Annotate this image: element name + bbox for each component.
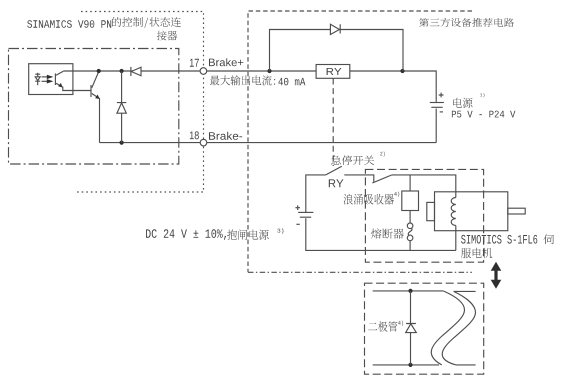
- diode V4 branch lower wire: [410, 333, 412, 365]
- pin 18 terminal circle: [200, 139, 207, 146]
- label 最大输出电流: (max output current): [210, 75, 275, 85]
- phototransistor emitter with arrowhead: [56, 83, 91, 90]
- SINAMICS V90 PN control/status connector box (dash-dot): [9, 49, 179, 165]
- cable break squiggle (outer S-curve): [431, 291, 464, 365]
- label pin number 18: [190, 131, 199, 139]
- motor area dashed box: [365, 169, 483, 262]
- wire: bottom box bottom rail: [373, 364, 439, 366]
- label RY (contact): [329, 179, 344, 187]
- label DC 24 V ± 10%,: [146, 229, 226, 240]
- label SIMOTICS S-1FL6: [461, 235, 537, 244]
- battery B2 negative plate (thick): [300, 216, 311, 218]
- wire: between RY contact and emergency stop switch: [344, 175, 374, 182]
- node: junction dot bottom of diode V4: [408, 363, 412, 367]
- optocoupler LED (vertical diode): [35, 73, 40, 85]
- battery B2 positive plate: [298, 211, 313, 213]
- label superscript 1): [480, 93, 485, 97]
- optocoupler light arrows: [42, 76, 48, 78]
- battery B1 minus sign: [440, 111, 443, 113]
- motor internal variant dashed box (bottom): [365, 283, 484, 374]
- battery B2 minus sign: [296, 223, 299, 225]
- label superscript 4) at surge absorber: [394, 192, 399, 197]
- label superscript 4) at diode: [398, 321, 403, 327]
- label RY (relay coil): [327, 68, 342, 75]
- connector boundary (dotted bracket around pins 17/18): [75, 12, 204, 193]
- wire: transistor emitter to pin 18 (Brake-): [100, 142, 201, 144]
- wire: bottom box top rail: [373, 290, 444, 292]
- power supply B1 positive plate: [430, 102, 444, 104]
- surge absorber box: [402, 191, 419, 211]
- wire: battery B1 negative to Brake- line: [435, 109, 437, 143]
- diode V2 (cathode bar left, points left): [131, 67, 141, 76]
- diode V4 (points up, cathode bar on top): [406, 324, 417, 333]
- diode V1 (points up, cathode bar on top): [117, 103, 126, 114]
- optocoupler U1 package box: [29, 64, 73, 95]
- label 的控制/状态连 (connector title CJK): [112, 17, 181, 28]
- wire: diode V1 branch upper: [121, 71, 123, 103]
- third-party device recommended circuit box (dashed, open right): [248, 11, 472, 272]
- wire: pin 18 to battery B1 bottom: [207, 142, 436, 144]
- transistor Q1 base bar: [90, 85, 92, 97]
- label SINAMICS V90 PN (Latin part of connector title): [27, 20, 111, 28]
- node: junction dot on Brake+ at bypass-loop left: [267, 69, 271, 73]
- label 急停开关 (emergency stop switch): [331, 155, 374, 165]
- node: junction dot on Brake- under protection diode: [120, 141, 124, 145]
- fuse F1 (two circles with S-link): [407, 223, 413, 229]
- wire: emergency stop switch to motor brake coil: [392, 175, 456, 198]
- wire: brake coil to bottom rail: [455, 226, 457, 251]
- node: junction dot Brake+ / Q1 collector: [97, 69, 101, 73]
- transistor Q1 collector: [92, 72, 99, 88]
- label pin number 17: [190, 59, 199, 67]
- switch S1 (RY contact) blade: [326, 166, 342, 175]
- wire: bypass diode loop: [270, 30, 404, 72]
- wire: opto collector to pin 17 (Brake+): [63, 70, 200, 72]
- node: junction dot top of diode V4: [408, 289, 412, 293]
- label Brake+: [209, 58, 243, 66]
- motor brake pad rectangle: [427, 202, 435, 220]
- wire: battery B2 to bottom rail: [306, 218, 456, 250]
- wire: surge absorber branch from top rail: [409, 175, 411, 191]
- label P5 V - P24 V: [452, 111, 516, 118]
- node: junction dot Brake+ / diode V1: [120, 69, 124, 73]
- diode V4 branch upper wire: [410, 291, 412, 324]
- label 40 mA: [278, 78, 305, 86]
- pin 17 terminal circle: [200, 68, 207, 75]
- wire: relay circuit top-left corner to RY contact: [306, 175, 326, 212]
- label 服电机 (servo motor, line 2): [461, 248, 492, 258]
- battery B2 plus sign: [295, 205, 300, 210]
- label 浪涌吸收器 (surge absorber): [344, 194, 394, 205]
- wire: pin 17 to power supply corner: [207, 71, 437, 102]
- brake coil L1 (4 arcs): [451, 198, 456, 226]
- label 熔断器 (fuse): [371, 228, 404, 238]
- label 二极管 (diode): [368, 321, 397, 332]
- wire: bottom box top-right stub: [454, 290, 476, 292]
- third-party box bottom edge (dash-dot): [248, 271, 472, 273]
- wire: fuse to bottom rail: [409, 241, 411, 251]
- wire: bottom box bottom-right stub: [456, 364, 476, 366]
- label 第三方设备推荐电路 (third-party recommended circuit): [419, 18, 514, 27]
- label superscript 3): [277, 228, 283, 234]
- power supply B1 negative plate (thick): [431, 106, 442, 108]
- label 抱闸电源 (brake power supply): [227, 230, 269, 240]
- dashed mechanical link RY coil to RY contact: [332, 79, 334, 167]
- motor shaft: [508, 208, 525, 214]
- optocoupler phototransistor bar: [54, 73, 56, 85]
- cable break squiggle (inner S-curve): [442, 291, 475, 365]
- label 伺 (servo, line 1 tail): [543, 234, 554, 244]
- label superscript 2): [380, 152, 385, 157]
- switch S2 (emergency stop) blade: [372, 175, 392, 183]
- relay coil RY box: [316, 65, 350, 79]
- diode V3 (freewheeling diode across RY coil): [330, 24, 340, 34]
- transistor Q1 emitter with arrowhead: [92, 94, 100, 143]
- double-headed arrow between motor box and variant box: [491, 262, 502, 289]
- phototransistor collector: [56, 71, 63, 75]
- label 电源 (power supply): [453, 98, 472, 108]
- motor M1 body outline: [435, 192, 508, 231]
- battery B1 plus sign: [439, 93, 444, 98]
- label Brake-: [209, 132, 242, 140]
- label 接器 (connector title line 2): [157, 31, 177, 41]
- wire: surge absorber to fuse: [409, 211, 411, 224]
- wire: diode V1 branch lower: [121, 113, 123, 142]
- node: junction dot on Brake+ at bypass-loop right: [400, 69, 404, 73]
